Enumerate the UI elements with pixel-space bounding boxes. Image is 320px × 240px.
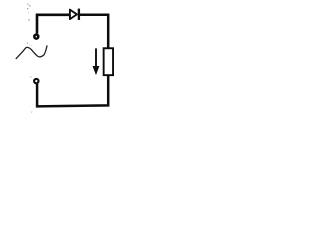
current direction arrow shaft [95,48,97,67]
scan speckle left of bottom terminal [30,76,31,77]
scan speckles near sine wave [27,42,33,45]
wire: resistor bottom to bottom-right corner, bottom return wire, up to lower terminal [37,76,108,107]
AC source terminal (bottom) [34,79,38,83]
wire: diode cathode to top-right corner down to resistor top [80,15,108,48]
diode D1 triangle (anode, pointing right) [70,10,77,20]
wire: top-left corner, left vertical + top segment to diode anode [37,15,70,34]
resistor R (load) [104,48,113,75]
AC source sine wave symbol [16,45,47,59]
current direction arrow head [93,66,100,75]
scan speckles top-left cluster [27,4,31,21]
diode D1 cathode bar [78,9,80,20]
scan speckle below bottom-left corner [31,112,32,113]
AC source terminal (top) [34,35,38,39]
